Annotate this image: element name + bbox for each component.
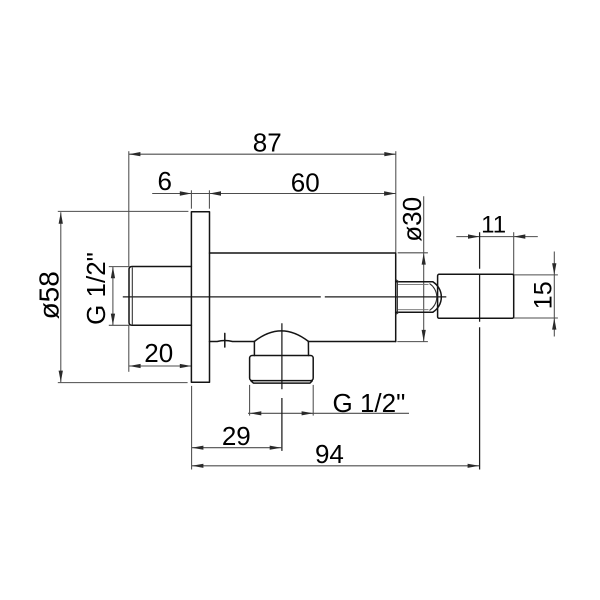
svg-text:29: 29 bbox=[222, 421, 251, 451]
svg-text:20: 20 bbox=[144, 338, 173, 368]
svg-text:G 1/2": G 1/2" bbox=[333, 388, 406, 418]
svg-text:87: 87 bbox=[253, 128, 282, 158]
svg-text:11: 11 bbox=[481, 212, 506, 239]
svg-text:G 1/2": G 1/2" bbox=[81, 252, 111, 325]
svg-text:15: 15 bbox=[530, 281, 558, 309]
svg-text:6: 6 bbox=[157, 166, 171, 196]
svg-text:60: 60 bbox=[291, 167, 320, 197]
svg-text:ø58: ø58 bbox=[34, 271, 65, 319]
svg-text:94: 94 bbox=[315, 439, 344, 469]
svg-text:ø30: ø30 bbox=[397, 197, 427, 242]
